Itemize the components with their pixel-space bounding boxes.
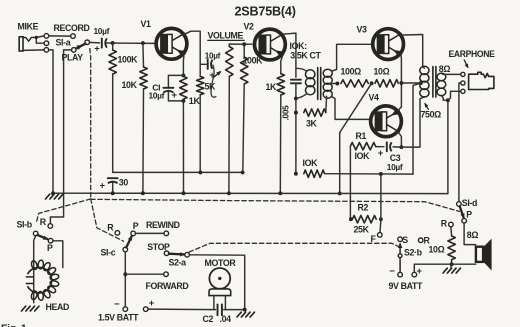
node T1 CT junction [332, 82, 339, 86]
switch S1-a input contacts [44, 34, 49, 53]
switch S1-b lever [37, 235, 48, 240]
terminal REWIND [146, 220, 180, 236]
wire motor legs [214, 296, 226, 310]
node 3K left [294, 111, 298, 115]
microphone MIKE [18, 22, 39, 52]
svg-text:PLAY: PLAY [62, 53, 84, 63]
svg-text:C2: C2 [203, 314, 214, 324]
resistor R2 25K [352, 202, 376, 234]
node mike junction [35, 36, 38, 39]
node 1K bottom [181, 99, 185, 103]
caption fragment [1, 323, 27, 327]
switch S1-b R contact [40, 217, 53, 228]
switch S1-a pole and lever [56, 38, 90, 50]
battery 9V terminals [389, 266, 422, 277]
wire P to REWIND [135, 232, 164, 234]
speaker [476, 239, 492, 271]
resistor 1K V2 emitter [266, 74, 285, 194]
switch S1-d P contact [462, 209, 472, 223]
svg-text:MOTOR: MOTOR [205, 258, 237, 268]
transformer T1 primary [296, 68, 315, 98]
node rail2 a [51, 191, 55, 195]
node T2 center tap [419, 81, 423, 85]
wire mike hot to S1-a contacts [36, 36, 44, 43]
switch S1-c R contact [107, 223, 119, 236]
transformer T2 core [433, 67, 436, 98]
svg-text:10µf: 10µf [149, 91, 165, 101]
switch S2-b S contact [398, 235, 408, 245]
node rail2 c [141, 191, 145, 195]
wire to RECORD contact [49, 35, 71, 37]
label 10K: 3.5K CT [290, 41, 322, 61]
wire V4 emitter [398, 107, 401, 110]
ground speaker [443, 264, 460, 273]
svg-text:8Ω: 8Ω [467, 230, 479, 240]
node rail2 b [111, 191, 115, 195]
wire speaker bottom [452, 263, 476, 265]
svg-text:10Ω: 10Ω [429, 245, 445, 255]
linkage S2-a to S2-b [189, 243, 398, 252]
svg-text:+: + [378, 148, 384, 159]
switch S2-a pole [169, 252, 190, 267]
transistor V4 [369, 93, 402, 137]
svg-text:2SB75B(4): 2SB75B(4) [235, 5, 296, 19]
node 10K feedback left [294, 172, 298, 176]
switch S1-a RECORD contact [54, 23, 90, 38]
svg-text:+: + [100, 180, 106, 191]
node input-10K [141, 41, 145, 45]
wire rail1 [113, 171, 243, 173]
transistor V3 [357, 25, 404, 60]
svg-text:SI-b: SI-b [17, 219, 33, 229]
resistor 10ohm driver [374, 67, 399, 88]
svg-text:3.5K CT: 3.5K CT [290, 50, 321, 60]
capacitor .005 [282, 80, 301, 121]
svg-text:IOK: IOK [355, 151, 371, 161]
node 100-10 junction [370, 81, 374, 85]
wire 9V plus to ground node [414, 264, 449, 272]
svg-text:.04: .04 [220, 314, 232, 324]
node T1 primary bottom [294, 96, 298, 100]
wire S1-b P lead [53, 241, 63, 268]
node rail2 d [182, 191, 186, 195]
wire rail2 main [53, 192, 448, 194]
resistor 100ohm [341, 67, 369, 88]
switch S1-c pole [101, 247, 128, 257]
node emitter join [399, 81, 403, 85]
switch S2-b lever [398, 243, 423, 273]
wire V3 collector to T2 [400, 35, 424, 69]
svg-text:STOP: STOP [147, 242, 170, 252]
terminal STOP [147, 242, 170, 256]
wire S1-b pole to head [34, 236, 36, 303]
switch S1-b pole [17, 219, 39, 235]
wire motor rail [148, 308, 245, 311]
svg-text:FORWARD: FORWARD [146, 281, 189, 291]
head coil core [26, 267, 52, 293]
transistor V2 [244, 22, 286, 60]
svg-text:1K: 1K [266, 82, 278, 92]
label 1.5V BATT [98, 313, 139, 323]
wire mike shield lead [23, 49, 44, 52]
svg-text:MIKE: MIKE [18, 22, 39, 32]
svg-text:10µf: 10µf [94, 26, 110, 36]
svg-text:100K: 100K [243, 56, 264, 66]
wire P to speaker [464, 223, 476, 245]
node diagonal-rail2 [338, 191, 342, 195]
switch S1-a PLAY contact [62, 48, 84, 63]
wire V1 base [154, 42, 157, 44]
wire V4 collector [398, 132, 401, 147]
wire diagonal junction to rail [340, 83, 372, 193]
svg-text:100Ω: 100Ω [341, 67, 362, 77]
svg-text:−: − [389, 266, 395, 277]
transformer T1 secondary [323, 69, 332, 98]
svg-text:SI-d: SI-d [462, 198, 477, 208]
resistor 1K V1 emitter [180, 76, 201, 106]
wire 1K to rail [182, 101, 184, 193]
svg-text:+: + [94, 44, 100, 55]
svg-text:EARPHONE: EARPHONE [449, 49, 495, 59]
wire to C-coupling [200, 63, 206, 65]
svg-text:1K: 1K [189, 96, 201, 106]
head coil petals [30, 260, 59, 301]
node V1 emitter [181, 73, 185, 77]
svg-text:P: P [47, 243, 53, 253]
svg-text:VOLUME: VOLUME [208, 31, 244, 41]
svg-text:V3: V3 [357, 25, 368, 35]
svg-text:RECORD: RECORD [54, 23, 90, 33]
node V2 base bias [242, 42, 246, 46]
svg-text:5K: 5K [205, 82, 217, 92]
svg-text:V4: V4 [369, 93, 380, 103]
node rail-R2 riser [379, 172, 383, 176]
label 8ohm speaker [467, 230, 479, 240]
wire input line to V1 base [107, 42, 154, 44]
transistor V1 [141, 19, 187, 59]
svg-text:IOK:: IOK: [290, 41, 308, 51]
label 8ohm T2 [439, 64, 451, 74]
svg-text:P: P [133, 221, 139, 231]
wire .005 down [295, 84, 297, 174]
node rail1 end [241, 170, 245, 174]
potentiometer volume 5K element [226, 44, 233, 193]
earphone plug [469, 72, 494, 89]
wire V1 emitter [182, 56, 185, 76]
node motor rail end [243, 308, 247, 312]
svg-text:−: − [114, 299, 120, 310]
label 9V BATT [389, 281, 424, 291]
svg-text:+: + [417, 266, 423, 277]
svg-text:9V BATT: 9V BATT [389, 281, 424, 291]
capacitor C2 .04 [203, 304, 232, 323]
wire rail2 riser to earphone [447, 100, 449, 193]
capacitor C3 10uf [376, 142, 403, 172]
transformer T2 secondary [437, 73, 446, 96]
resistor 100K V2 bias [241, 44, 264, 172]
wiper arrow volume pot [211, 65, 221, 98]
resistor R1 10K [350, 131, 375, 161]
svg-text:R: R [441, 219, 448, 229]
svg-text:REWIND: REWIND [146, 220, 180, 230]
svg-text:.005: .005 [282, 105, 291, 120]
node input-100K [111, 41, 115, 45]
linkage main horizontal [91, 199, 460, 211]
svg-text:R: R [107, 223, 114, 233]
svg-text:HEAD: HEAD [46, 302, 70, 312]
wire S2-a to motor rail [189, 255, 244, 310]
wire volume top to V2 base [229, 43, 252, 45]
svg-text:SI-a: SI-a [56, 38, 71, 48]
switch S1-d lever [460, 206, 465, 219]
svg-text:750Ω: 750Ω [421, 110, 442, 120]
svg-text:10µf: 10µf [205, 51, 221, 60]
transformer T1 core [318, 68, 321, 100]
resistor 5K V1 load [197, 64, 217, 172]
wire to FORWARD [125, 273, 163, 275]
svg-text:R2: R2 [358, 202, 369, 212]
wire S1-c pole down [124, 252, 126, 307]
switch S1-c lever [126, 235, 132, 247]
svg-text:Fig. 1: Fig. 1 [1, 323, 27, 327]
transformer T2 primary [420, 66, 429, 97]
capacitor 10uf coupling V1-V2 [205, 51, 221, 81]
svg-text:R1: R1 [356, 131, 367, 141]
svg-text:V2: V2 [244, 22, 255, 32]
resistor 10K feedback [303, 158, 325, 178]
wire C3 node to T2 primary bottom [401, 97, 424, 147]
wire V3 emitter [400, 54, 401, 107]
wire T2 sec top to jack [441, 73, 461, 76]
capacitor 30uf [100, 178, 129, 194]
svg-text:25K: 25K [354, 225, 370, 235]
svg-text:+: + [149, 298, 155, 309]
node rail2 e [227, 191, 231, 195]
terminal R speaker [441, 219, 453, 229]
wire V2 emitter [281, 56, 283, 73]
svg-text:+: + [172, 90, 178, 101]
node speaker return [450, 262, 454, 266]
motor [205, 258, 237, 296]
capacitor C1 10uf [149, 75, 184, 101]
node forward tap [123, 272, 127, 276]
label EARPHONE [449, 49, 495, 68]
node R2 right [379, 217, 383, 221]
wire T1 sec top to V3 base [332, 44, 371, 71]
node rail1 5K [198, 170, 202, 174]
svg-text:S2·b: S2·b [404, 248, 423, 258]
svg-text:S2-a: S2-a [169, 258, 187, 268]
svg-text:10K: 10K [122, 80, 138, 90]
resistor 10K V1 bias lower [122, 43, 148, 193]
wire jack sleeve lead [448, 91, 461, 100]
wire 3K right riser [325, 96, 328, 112]
svg-text:10µf: 10µf [387, 162, 403, 172]
wire R2 to F [379, 219, 382, 232]
wire emitter node to CT [401, 82, 421, 84]
svg-text:V1: V1 [141, 19, 152, 29]
svg-text:30: 30 [119, 178, 129, 188]
switch S1-c P contact [131, 221, 139, 236]
svg-text:P: P [466, 209, 472, 219]
label 2SB75B(4) [235, 5, 296, 19]
svg-text:R: R [40, 217, 47, 227]
wire V1 collector up [184, 31, 200, 64]
jack contacts [461, 72, 465, 93]
resistor 100K V1 bias upper [109, 43, 138, 172]
capacitor 10uf input [94, 26, 110, 54]
wire jack ring to S1-d [459, 83, 461, 202]
label VOLUME [208, 31, 245, 41]
svg-text:8Ω: 8Ω [439, 64, 451, 74]
wire S1-a pole to C-in [90, 41, 100, 44]
svg-text:1.5V BATT: 1.5V BATT [98, 313, 139, 323]
linkage to S1-c [91, 199, 124, 241]
ground head [22, 306, 39, 311]
svg-text:R: R [424, 236, 431, 246]
svg-text:3K: 3K [306, 119, 318, 129]
label 750ohm with arrow [421, 103, 442, 120]
label HEAD [46, 302, 70, 312]
node V4 collector [399, 145, 403, 149]
switch S1-d contact [457, 198, 477, 208]
wire T1 sec bottom to V4 base [332, 97, 369, 120]
wire V2 collector [283, 33, 296, 77]
terminal FORWARD [146, 272, 189, 291]
wire T2 sec bottom [441, 95, 448, 100]
svg-text:IOK: IOK [303, 158, 319, 168]
node R2 left [349, 217, 353, 221]
node rail2 f [278, 191, 282, 195]
svg-text:SI-c: SI-c [101, 248, 116, 258]
switch S2-a lever [169, 252, 185, 256]
linkage to S1-b [37, 199, 91, 222]
svg-text:10Ω: 10Ω [374, 67, 390, 77]
battery 1.5V terminals [114, 298, 155, 311]
ground mike shield [46, 194, 63, 199]
wire mike shield to ground rail [49, 50, 53, 193]
terminal F [371, 233, 383, 244]
wire T2 CT to rail [413, 83, 421, 174]
linkage S1-a down [89, 49, 92, 199]
resistor 10ohm speaker [429, 227, 456, 264]
svg-text:100K: 100K [118, 54, 139, 64]
switch S2-b R contact [418, 236, 430, 246]
wire R1-R2 riser [349, 146, 351, 219]
wire R2 right riser [380, 174, 382, 219]
wire bias rail [325, 173, 413, 175]
resistor 3K [304, 109, 326, 129]
node jack return [446, 98, 450, 102]
svg-text:S: S [402, 235, 408, 245]
wire PLAY to S1-b R contact [50, 50, 71, 224]
ground motor [237, 312, 254, 317]
switch S1-b P contact [47, 238, 53, 253]
